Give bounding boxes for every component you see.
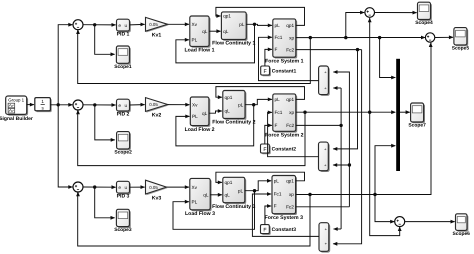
wire qp1 loop Force System 1 to Flow Continuity 1 bbox=[216, 7, 305, 25]
wire Kv1 to Load Flow 1 Xv bbox=[168, 23, 189, 25]
wire Constant2 to Force System 2 F bbox=[265, 125, 272, 144]
sum junction Sum4 bbox=[365, 8, 375, 18]
svg-text:xp: xp bbox=[289, 192, 294, 197]
add block Add3 (flipped sum) bbox=[320, 224, 330, 253]
constant block Constant3 value F bbox=[262, 226, 271, 235]
wire Mux output to Scope7 bbox=[400, 111, 410, 113]
svg-text:Fc2: Fc2 bbox=[286, 205, 294, 210]
wire Sum1 to PID 1 bbox=[83, 24, 116, 26]
svg-text:qp1: qp1 bbox=[286, 23, 294, 28]
svg-text:F: F bbox=[263, 147, 266, 153]
sum junction Sum6 bbox=[395, 217, 405, 227]
svg-text:qp1: qp1 bbox=[286, 179, 294, 184]
svg-text:Fc2: Fc2 bbox=[286, 47, 294, 52]
wire PID 1 to Kv1 bbox=[130, 23, 145, 26]
sum junction Sum5 bbox=[425, 33, 434, 42]
svg-text:Force System 1: Force System 1 bbox=[265, 58, 303, 64]
svg-text:Flow Continuity 2: Flow Continuity 2 bbox=[212, 120, 255, 126]
wire error2 branch to Scope2 bbox=[95, 105, 115, 140]
svg-text:xp: xp bbox=[289, 35, 294, 40]
svg-text:Force System 2: Force System 2 bbox=[265, 133, 303, 139]
svg-text:0.05: 0.05 bbox=[149, 185, 158, 190]
wire PID 2 to Kv2 bbox=[130, 104, 145, 106]
svg-text:Scope3: Scope3 bbox=[114, 227, 132, 233]
PID controller block PID 3 bbox=[118, 183, 131, 195]
svg-text:PL: PL bbox=[192, 199, 198, 204]
wire xp2 up to Sum4 bottom and down to Sum6 bottom bbox=[370, 18, 400, 236]
scope block Scope5 bbox=[455, 29, 468, 46]
constant block Constant1 value F bbox=[262, 67, 271, 76]
add block Add1 (flipped sum) bbox=[320, 67, 330, 96]
wire pL3 feedback loop to Load Flow 3 PL bbox=[173, 191, 255, 230]
svg-text:Kv2: Kv2 bbox=[152, 113, 162, 119]
node pL1 branch bbox=[253, 23, 256, 26]
wire xp1 Force System 1 to Sum5 bbox=[296, 37, 425, 39]
svg-text:qL: qL bbox=[225, 193, 231, 198]
svg-text:pL: pL bbox=[238, 102, 244, 107]
svg-text:pL: pL bbox=[238, 188, 244, 193]
svg-text:pL: pL bbox=[239, 22, 245, 27]
svg-text:F: F bbox=[274, 204, 277, 209]
wire Sum4 to Scope4 bbox=[375, 12, 417, 14]
wire Load Flow 3 qL to Flow Continuity 3 qL bbox=[210, 194, 222, 196]
wire xp3 feedback to Sum3 bbox=[78, 192, 310, 246]
svg-text:Force System 3: Force System 3 bbox=[265, 215, 303, 221]
subsystem block Force System 1 bbox=[274, 20, 297, 58]
wire xp1 up to Sum4 bbox=[346, 13, 364, 38]
svg-text:0.05: 0.05 bbox=[149, 102, 158, 107]
subsystem block Flow Continuity 2 bbox=[224, 92, 246, 120]
scope block Scope2 bbox=[118, 133, 131, 150]
node pL2 branch bbox=[252, 103, 255, 106]
sum junction Sum1 bbox=[73, 20, 83, 30]
subsystem block Force System 3 bbox=[273, 177, 297, 215]
wire Load Flow 1 qL to Flow Continuity 1 qL bbox=[209, 30, 220, 32]
wire Load Flow 2 qL to Flow Continuity 2 qL bbox=[209, 111, 222, 113]
svg-text:Signal Builder: Signal Builder bbox=[0, 116, 33, 122]
wire xp1 feedback to Sum1 bbox=[78, 30, 311, 84]
svg-text:qL: qL bbox=[202, 29, 208, 34]
subsystem block Flow Continuity 3 bbox=[224, 179, 246, 204]
subsystem block Flow Continuity 1 bbox=[223, 13, 248, 41]
svg-text:Fc1: Fc1 bbox=[275, 35, 283, 40]
svg-text:e: e bbox=[118, 104, 121, 109]
wire Flow Continuity 3 pL to Force System 3 pL bbox=[245, 181, 271, 191]
gain block Kv3 value 0.05 bbox=[147, 181, 168, 195]
wire Fc2 of Force System 1 coupling branch bbox=[296, 49, 362, 51]
wire PID 3 to Kv3 bbox=[130, 186, 145, 188]
svg-text:PL: PL bbox=[192, 38, 198, 43]
svg-text:Load Flow 1: Load Flow 1 bbox=[185, 48, 215, 54]
svg-text:qp1: qp1 bbox=[225, 180, 233, 185]
wire error3 branch to Scope3 bbox=[95, 187, 115, 218]
subsystem block Force System 2 bbox=[274, 95, 297, 132]
svg-text:u: u bbox=[125, 24, 128, 29]
svg-text:Constant2: Constant2 bbox=[272, 147, 297, 153]
svg-text:qL: qL bbox=[203, 193, 209, 198]
scope block Scope1 bbox=[118, 47, 131, 64]
svg-text:F: F bbox=[264, 69, 267, 75]
node Fc2_1 split bbox=[356, 48, 359, 51]
wire reference down to Sum3 bbox=[58, 105, 72, 187]
svg-text:u: u bbox=[125, 104, 128, 109]
node reference branch bbox=[57, 103, 60, 106]
wire Fc2_1 down to Add3 input 2 bbox=[333, 50, 361, 244]
mux block Mux bbox=[396, 59, 400, 171]
node xp3 feedback branch bbox=[308, 193, 311, 196]
wire Fc2_3 up to Add2 input 2 and Add1 input 1 bbox=[333, 72, 349, 207]
svg-text:Scope7: Scope7 bbox=[408, 123, 426, 129]
constant block Constant2 value F bbox=[262, 145, 271, 154]
svg-text:e: e bbox=[118, 24, 121, 29]
svg-text:Xv: Xv bbox=[192, 185, 198, 190]
wire Kv3 to Load Flow 3 Xv bbox=[167, 186, 189, 188]
wire reference up to Sum1 bbox=[58, 25, 72, 105]
svg-text:PL: PL bbox=[192, 114, 198, 119]
svg-text:pL: pL bbox=[275, 23, 281, 28]
wire Add1 output to Force System 1 Fc1 bbox=[259, 37, 319, 80]
wire xp1 down to Mux input 1 bbox=[380, 38, 396, 78]
gain block Kv2 value 0.05 bbox=[147, 99, 169, 113]
wire pL2 feedback loop to Load Flow 2 PL bbox=[176, 105, 254, 146]
svg-text:Scope2: Scope2 bbox=[114, 150, 132, 156]
svg-text:1: 1 bbox=[41, 99, 44, 104]
node Fc2_2 split bbox=[339, 124, 342, 127]
wire error1 branch to Scope1 bbox=[95, 25, 115, 55]
svg-text:Kv3: Kv3 bbox=[152, 195, 162, 201]
gain block Kv1 value 0.05 bbox=[147, 19, 169, 33]
subsystem block Load Flow 1 bbox=[191, 17, 210, 47]
svg-text:F: F bbox=[275, 47, 278, 52]
svg-text:Xv: Xv bbox=[192, 102, 198, 107]
svg-text:PID 2: PID 2 bbox=[117, 112, 130, 118]
svg-text:qp1: qp1 bbox=[223, 14, 231, 19]
sum junction Sum2 bbox=[73, 100, 83, 110]
svg-text:F: F bbox=[275, 123, 278, 128]
sum junction Sum3 bbox=[73, 182, 83, 192]
subsystem block Load Flow 2 bbox=[192, 98, 211, 127]
svg-text:Kv1: Kv1 bbox=[152, 33, 162, 39]
node xp1 feedback branch bbox=[309, 36, 312, 39]
svg-text:Scope1: Scope1 bbox=[114, 64, 132, 70]
PID controller block PID 1 bbox=[118, 21, 131, 33]
svg-text:Group 1: Group 1 bbox=[8, 98, 24, 103]
svg-text:PID 3: PID 3 bbox=[117, 194, 130, 200]
wire Sum5 to Scope5 bbox=[435, 36, 453, 38]
scope block Scope4 bbox=[419, 4, 432, 21]
wire Sum6 to Scope6 bbox=[405, 221, 455, 223]
node xp1 mux branch bbox=[378, 36, 381, 39]
svg-text:Flow Continuity 3: Flow Continuity 3 bbox=[212, 204, 255, 210]
scope block Scope7 bbox=[412, 104, 425, 123]
wire pL1 feedback loop to Load Flow 1 PL bbox=[176, 24, 255, 63]
signal builder block Group 1 / Signal Builder bbox=[7, 97, 28, 115]
add block Add2 (flipped sum) bbox=[320, 143, 330, 172]
wire Fc2_1 down to Add2 input 1 bbox=[333, 50, 357, 149]
svg-text:Load Flow 2: Load Flow 2 bbox=[185, 127, 215, 133]
node error2 branch bbox=[93, 103, 96, 106]
svg-text:e: e bbox=[118, 186, 121, 191]
svg-text:Fc2: Fc2 bbox=[286, 123, 294, 128]
wire Sum2 to PID 2 bbox=[83, 104, 116, 106]
wire Sum3 to PID 3 bbox=[83, 186, 116, 188]
wire Fc2 of Force System 2 coupling bbox=[296, 124, 341, 126]
svg-text:Scope4: Scope4 bbox=[415, 20, 433, 26]
scope block Scope6 bbox=[457, 215, 469, 232]
wire Flow Continuity 2 pL to Force System 2 pL bbox=[245, 99, 272, 104]
svg-text:Fc1: Fc1 bbox=[275, 110, 283, 115]
wire 1/s to Sum2 with branch node bbox=[50, 104, 72, 106]
svg-text:Constant1: Constant1 bbox=[272, 69, 297, 75]
wire xp3 Force System 3 to Sum5 bottom bbox=[296, 43, 431, 195]
wire Fc2 of Force System 3 coupling bbox=[296, 206, 350, 208]
svg-text:Constant3: Constant3 bbox=[272, 227, 297, 233]
svg-text:Fc1: Fc1 bbox=[274, 192, 282, 197]
wire Flow Continuity 1 pL to Force System 1 pL bbox=[246, 24, 272, 25]
subsystem block Load Flow 3 bbox=[191, 180, 211, 211]
svg-text:0.05: 0.05 bbox=[149, 22, 158, 27]
node xp2 feedback branch bbox=[303, 111, 306, 114]
node Fc2_3 split bbox=[348, 163, 351, 166]
node error3 branch bbox=[93, 185, 96, 188]
wire Constant1 to Force System 1 F bbox=[265, 49, 272, 66]
node xp3 branch to mux and Sum6 bbox=[373, 193, 376, 196]
svg-text:u: u bbox=[125, 186, 128, 191]
node xp2 difference branch bbox=[368, 111, 371, 114]
wire Kv2 to Load Flow 2 Xv bbox=[168, 104, 190, 106]
wire xp2 Force System 2 to Mux input 2 bbox=[296, 111, 396, 113]
transfer function block 1/s bbox=[36, 99, 52, 112]
svg-text:qL: qL bbox=[202, 111, 208, 116]
svg-text:qp1: qp1 bbox=[225, 95, 233, 100]
wire qp1 loop Force System 2 to Flow Continuity 2 bbox=[216, 87, 305, 100]
svg-text:Load Flow 3: Load Flow 3 bbox=[185, 211, 215, 217]
svg-text:pL: pL bbox=[274, 179, 280, 184]
wire Add3 output to Force System 3 Fc1 bbox=[252, 194, 319, 236]
node error1 branch bbox=[93, 23, 96, 26]
scope block Scope3 bbox=[118, 211, 131, 228]
node xp1 scope branch bbox=[344, 36, 347, 39]
wire Fc2_2 up to Add1 input 2 and down to Add3 input 1 bbox=[340, 88, 342, 229]
PID controller block PID 2 bbox=[118, 101, 131, 113]
svg-text:Scope6: Scope6 bbox=[452, 231, 470, 237]
svg-text:Flow Continuity 1: Flow Continuity 1 bbox=[212, 41, 255, 47]
wire Signal Builder to 1/s bbox=[27, 104, 34, 106]
wire Add2 output to Force System 2 Fc1 bbox=[268, 112, 319, 156]
wire xp3 up to Mux input 3 bbox=[375, 146, 395, 195]
wire qp1 loop Force System 3 to Flow Continuity 3 bbox=[216, 172, 305, 182]
svg-text:qL: qL bbox=[223, 29, 229, 34]
svg-text:PID 1: PID 1 bbox=[117, 32, 130, 38]
svg-text:F: F bbox=[263, 227, 266, 233]
wire xp3 down to Sum6 left bbox=[375, 195, 394, 222]
svg-text:qL: qL bbox=[225, 109, 231, 114]
svg-text:Xv: Xv bbox=[192, 22, 198, 27]
wire xp2 feedback to Sum2 bbox=[78, 110, 305, 165]
svg-text:qp1: qp1 bbox=[286, 97, 294, 102]
svg-text:Scope5: Scope5 bbox=[452, 46, 470, 52]
node pL3 branch bbox=[253, 189, 256, 192]
wire Constant3 to Force System 3 F bbox=[265, 206, 271, 225]
svg-text:xp: xp bbox=[289, 110, 294, 115]
svg-text:pL: pL bbox=[275, 97, 281, 102]
